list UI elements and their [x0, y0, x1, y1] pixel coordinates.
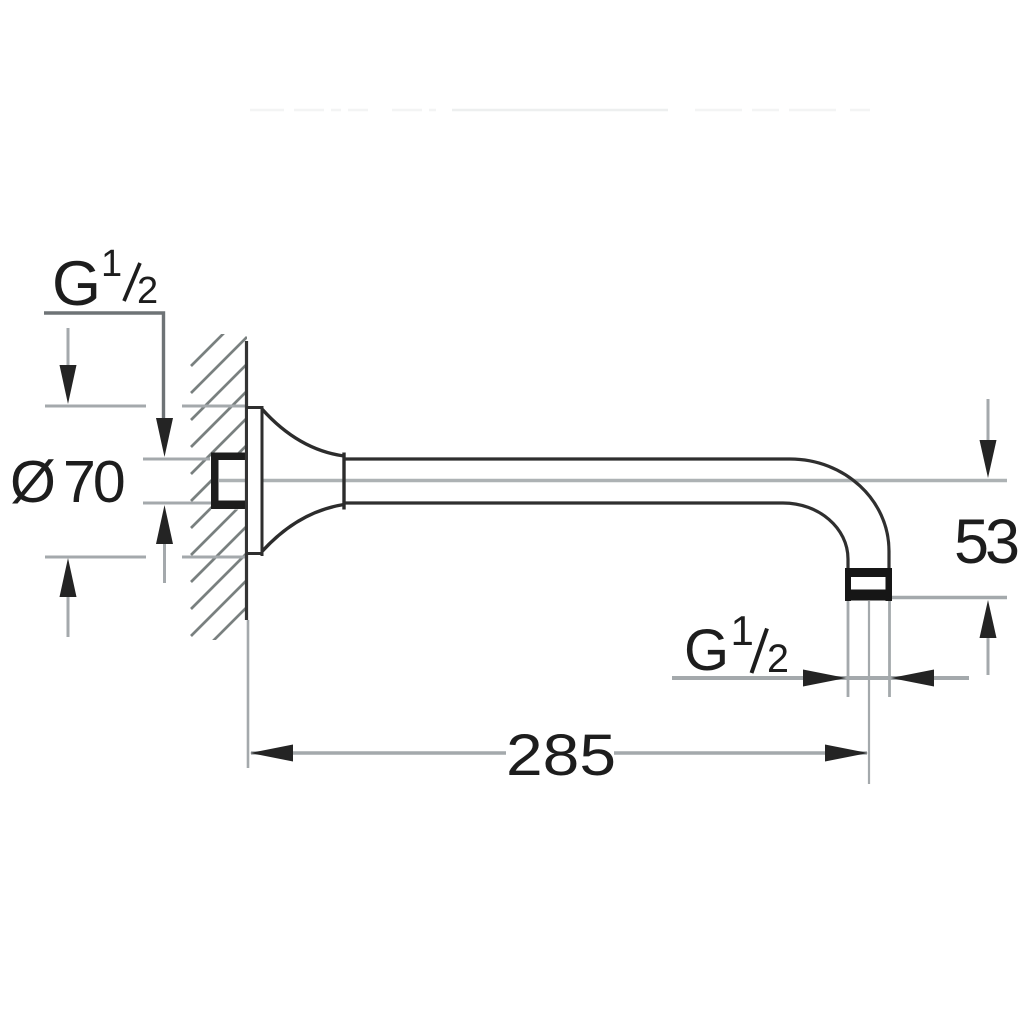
svg-text:Ø: Ø — [10, 449, 56, 515]
svg-text:2: 2 — [767, 637, 789, 681]
svg-text:285: 285 — [506, 723, 616, 788]
svg-text:53: 53 — [954, 507, 1018, 577]
svg-text:2: 2 — [137, 270, 158, 312]
svg-text:1: 1 — [731, 607, 754, 654]
svg-text:G: G — [52, 249, 101, 319]
svg-text:70: 70 — [63, 449, 124, 515]
svg-text:G: G — [684, 618, 729, 683]
svg-text:1: 1 — [101, 243, 122, 285]
